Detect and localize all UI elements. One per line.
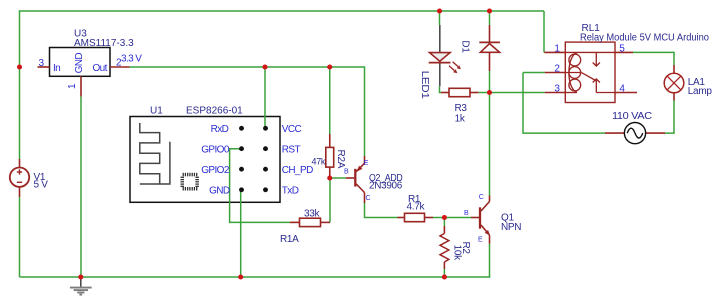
svg-text:10k: 10k [451, 245, 462, 262]
svg-text:RST: RST [282, 144, 301, 155]
svg-text:D1: D1 [460, 40, 471, 53]
svg-text:B: B [464, 210, 469, 217]
svg-text:Lamp: Lamp [688, 86, 713, 97]
svg-text:TxD: TxD [282, 185, 299, 196]
svg-text:C: C [479, 194, 484, 201]
svg-text:1k: 1k [455, 114, 466, 125]
svg-text:VCC: VCC [282, 124, 302, 135]
svg-text:GND: GND [74, 53, 85, 74]
svg-text:5 V: 5 V [34, 179, 49, 190]
svg-text:GND: GND [209, 185, 230, 196]
svg-text:E: E [364, 160, 369, 167]
svg-text:LED1: LED1 [419, 71, 430, 100]
svg-text:4.7k: 4.7k [407, 202, 426, 213]
svg-text:R2A: R2A [335, 150, 346, 169]
svg-text:E: E [478, 236, 483, 243]
svg-text:Relay Module 5V MCU Arduino: Relay Module 5V MCU Arduino [580, 32, 709, 43]
svg-text:B: B [344, 169, 349, 176]
svg-text:C: C [366, 195, 371, 202]
svg-text:1: 1 [67, 83, 78, 89]
svg-text:AMS1117-3.3: AMS1117-3.3 [74, 38, 134, 49]
svg-text:33k: 33k [304, 208, 321, 219]
svg-text:U1: U1 [150, 106, 163, 117]
svg-text:In: In [53, 63, 60, 74]
svg-text:CH_PD: CH_PD [282, 165, 313, 176]
svg-text:110 VAC: 110 VAC [612, 111, 652, 122]
svg-text:GPIO0: GPIO0 [201, 144, 230, 155]
svg-text:2N3906: 2N3906 [369, 181, 403, 192]
svg-text:NPN: NPN [501, 222, 521, 233]
svg-text:R1A: R1A [280, 234, 299, 245]
svg-text:R3: R3 [455, 103, 468, 114]
svg-text:ESP8266-01: ESP8266-01 [186, 106, 243, 117]
svg-text:RxD: RxD [211, 124, 229, 135]
svg-text:Out: Out [93, 63, 108, 74]
svg-text:3.3 V: 3.3 V [121, 54, 142, 65]
svg-text:GPIO2: GPIO2 [201, 165, 230, 176]
svg-text:47k: 47k [312, 157, 326, 167]
